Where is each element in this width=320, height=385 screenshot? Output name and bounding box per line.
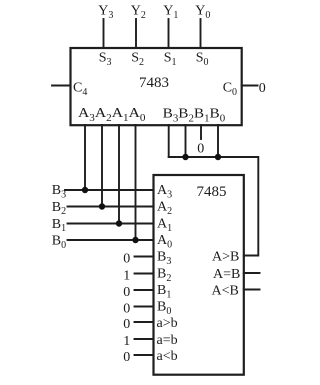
wire constant stub cascade a<b (135, 354, 154, 356)
node junction A2/B2 (99, 203, 105, 209)
IC U2 7485 4-bit comparator box (154, 175, 244, 375)
svg-text:a<b: a<b (157, 349, 178, 364)
svg-text:1: 1 (123, 268, 130, 283)
svg-text:1: 1 (123, 334, 130, 349)
node junction adder B0 feedback (215, 154, 221, 160)
wire input B1 row (68, 223, 154, 225)
svg-text:0: 0 (123, 350, 130, 365)
wire adder A3 pin down to node (84, 125, 86, 190)
svg-text:0: 0 (123, 317, 130, 332)
wire output A<B stub (244, 289, 260, 291)
node junction adder B2 feedback (182, 154, 188, 160)
node junction A1/B1 (116, 220, 122, 226)
wire output A=B stub (244, 272, 260, 274)
wire adder A0 pin down to node (135, 125, 137, 240)
svg-text:0: 0 (123, 301, 130, 316)
svg-text:a=b: a=b (157, 333, 178, 348)
wire feedback A>B to adder B inputs (169, 157, 259, 256)
wire Y1 input (168, 19, 170, 48)
wire constant stub cascade a=b (135, 338, 154, 340)
wire C4 stub (52, 85, 71, 87)
wire input B3 row (65, 189, 154, 191)
wire constant stub comparator B2 (135, 273, 154, 275)
wire constant stub cascade a>b (135, 321, 154, 323)
svg-text:7485: 7485 (197, 184, 227, 200)
wire constant stub comparator B1 (135, 289, 154, 291)
wire adder B3 pin down (168, 125, 170, 157)
svg-text:7483: 7483 (139, 75, 169, 91)
wire Y2 input (135, 19, 137, 48)
wire C0 stub (242, 85, 258, 87)
wire Y3 input (103, 19, 105, 48)
wire adder A1 pin down to node (118, 125, 120, 224)
svg-text:0: 0 (197, 142, 204, 157)
wire Y0 input (200, 19, 202, 48)
wire constant stub comparator B0 (135, 306, 154, 308)
svg-text:a>b: a>b (157, 316, 178, 331)
wire adder A2 pin down to node (101, 125, 103, 207)
node junction A0/B0 (132, 237, 138, 243)
svg-text:0: 0 (123, 285, 130, 300)
wire input B0 row (68, 239, 154, 241)
svg-text:0: 0 (123, 251, 130, 266)
svg-text:A<B: A<B (212, 283, 239, 298)
wire input B2 row (68, 206, 154, 208)
wire adder B2 pin down (185, 125, 187, 157)
wire constant stub comparator B3 (135, 256, 154, 258)
svg-text:0: 0 (259, 81, 266, 96)
wire adder B1 pin stub to constant 0 (200, 125, 202, 139)
IC U1 7483 4-bit adder box (71, 48, 242, 125)
svg-text:A>B: A>B (212, 249, 239, 264)
svg-text:A=B: A=B (213, 267, 240, 282)
wire adder B0 pin down (217, 125, 219, 157)
node junction A3/B3 (82, 187, 88, 193)
